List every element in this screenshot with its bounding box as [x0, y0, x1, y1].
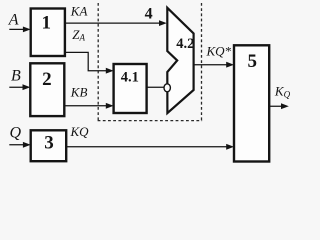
svg-text:KQ*: KQ*	[206, 43, 232, 58]
svg-text:2: 2	[42, 69, 52, 90]
svg-text:3: 3	[44, 133, 54, 154]
svg-text:A: A	[8, 11, 19, 28]
svg-text:KB: KB	[70, 85, 88, 100]
svg-text:4: 4	[145, 5, 153, 22]
svg-text:Q: Q	[10, 125, 22, 142]
svg-text:4.1: 4.1	[121, 70, 139, 86]
svg-text:5: 5	[248, 51, 258, 72]
svg-text:KA: KA	[70, 3, 88, 18]
svg-text:4.2: 4.2	[176, 36, 194, 52]
svg-text:B: B	[11, 67, 21, 84]
svg-text:1: 1	[41, 13, 51, 34]
svg-text:KQ: KQ	[70, 124, 90, 139]
